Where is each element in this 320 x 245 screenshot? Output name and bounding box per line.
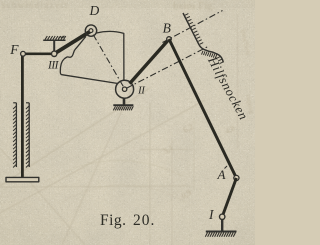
pivot III (52, 51, 57, 56)
svg-text:F: F (9, 42, 19, 57)
support post at III (53, 40, 55, 52)
guide right hatching (26, 106, 29, 109)
squiggle mark (59, 36, 65, 39)
pivot hub II (cam boss) (116, 80, 134, 98)
paper background (0, 0, 255, 245)
ghost diagonal line 4 bottom-left (0, 148, 85, 245)
ghost diagonal line 1 (0, 88, 150, 186)
centerline from II to wall (dash-dot) (127, 46, 209, 88)
support ceiling at III (43, 39, 65, 41)
ground line at II (113, 104, 133, 106)
guide left hatching (13, 106, 16, 109)
ghost diagonal line 3 steep (62, 70, 140, 245)
ghost diagonal line 2 (0, 100, 205, 213)
svg-text:A: A (217, 167, 226, 182)
svg-text:20.: 20. (133, 212, 155, 229)
ground hatching at II (113, 106, 115, 110)
ghost vertical grid x194 (193, 118, 195, 190)
link F-III (23, 52, 54, 55)
joint I (220, 214, 225, 219)
accent mark above A (225, 166, 228, 169)
ghost vertical axis x150 (149, 102, 151, 245)
ghost vertical grid x172 (171, 140, 173, 245)
svg-text:III: III (47, 59, 60, 71)
ghost horizontal line (0, 186, 190, 187)
ground line at I (206, 231, 237, 233)
ghost arc 1 (45, 160, 182, 182)
centerline D-II (dash-dot) (93, 35, 123, 87)
ghost vertical line right edge (237, 14, 239, 148)
ghost arc 2 (62, 185, 186, 202)
post below I (221, 219, 223, 231)
paper grain (0, 0, 255, 245)
support hatching at III (45, 36, 47, 40)
pin D (89, 29, 93, 33)
link A-I (crank) (222, 178, 236, 217)
svg-text:B: B (163, 21, 171, 36)
guide right wall (28, 103, 30, 167)
joint A (234, 175, 239, 180)
guide left wall (15, 103, 17, 167)
slider rod (plunger) (21, 54, 24, 179)
slider foot plate (6, 177, 39, 181)
svg-text:schwindigkeit: schwindigkeit (2, 0, 68, 10)
svg-text:beim Fig.: beim Fig. (173, 1, 215, 12)
paper mottling (0, 0, 255, 245)
paper grain light (0, 0, 255, 245)
centerline through B (dash-dot) (163, 11, 223, 43)
fixed wall surface (183, 13, 223, 62)
post below II (123, 98, 126, 105)
pin circle II (122, 87, 126, 91)
wall hatching (185, 14, 188, 16)
joint F (21, 51, 26, 56)
link III-D (lever arm) (55, 31, 91, 53)
svg-text:D: D (89, 3, 100, 18)
joint B (167, 37, 172, 42)
link II-B (130, 39, 169, 83)
roller D outer circle (85, 25, 96, 36)
link B-A (long follower rod) (169, 39, 236, 178)
ghost horizontal tick right (140, 149, 192, 151)
cam plate outline (97, 31, 124, 80)
svg-text:Fig.: Fig. (100, 212, 127, 229)
ground hatching at I (205, 233, 207, 237)
